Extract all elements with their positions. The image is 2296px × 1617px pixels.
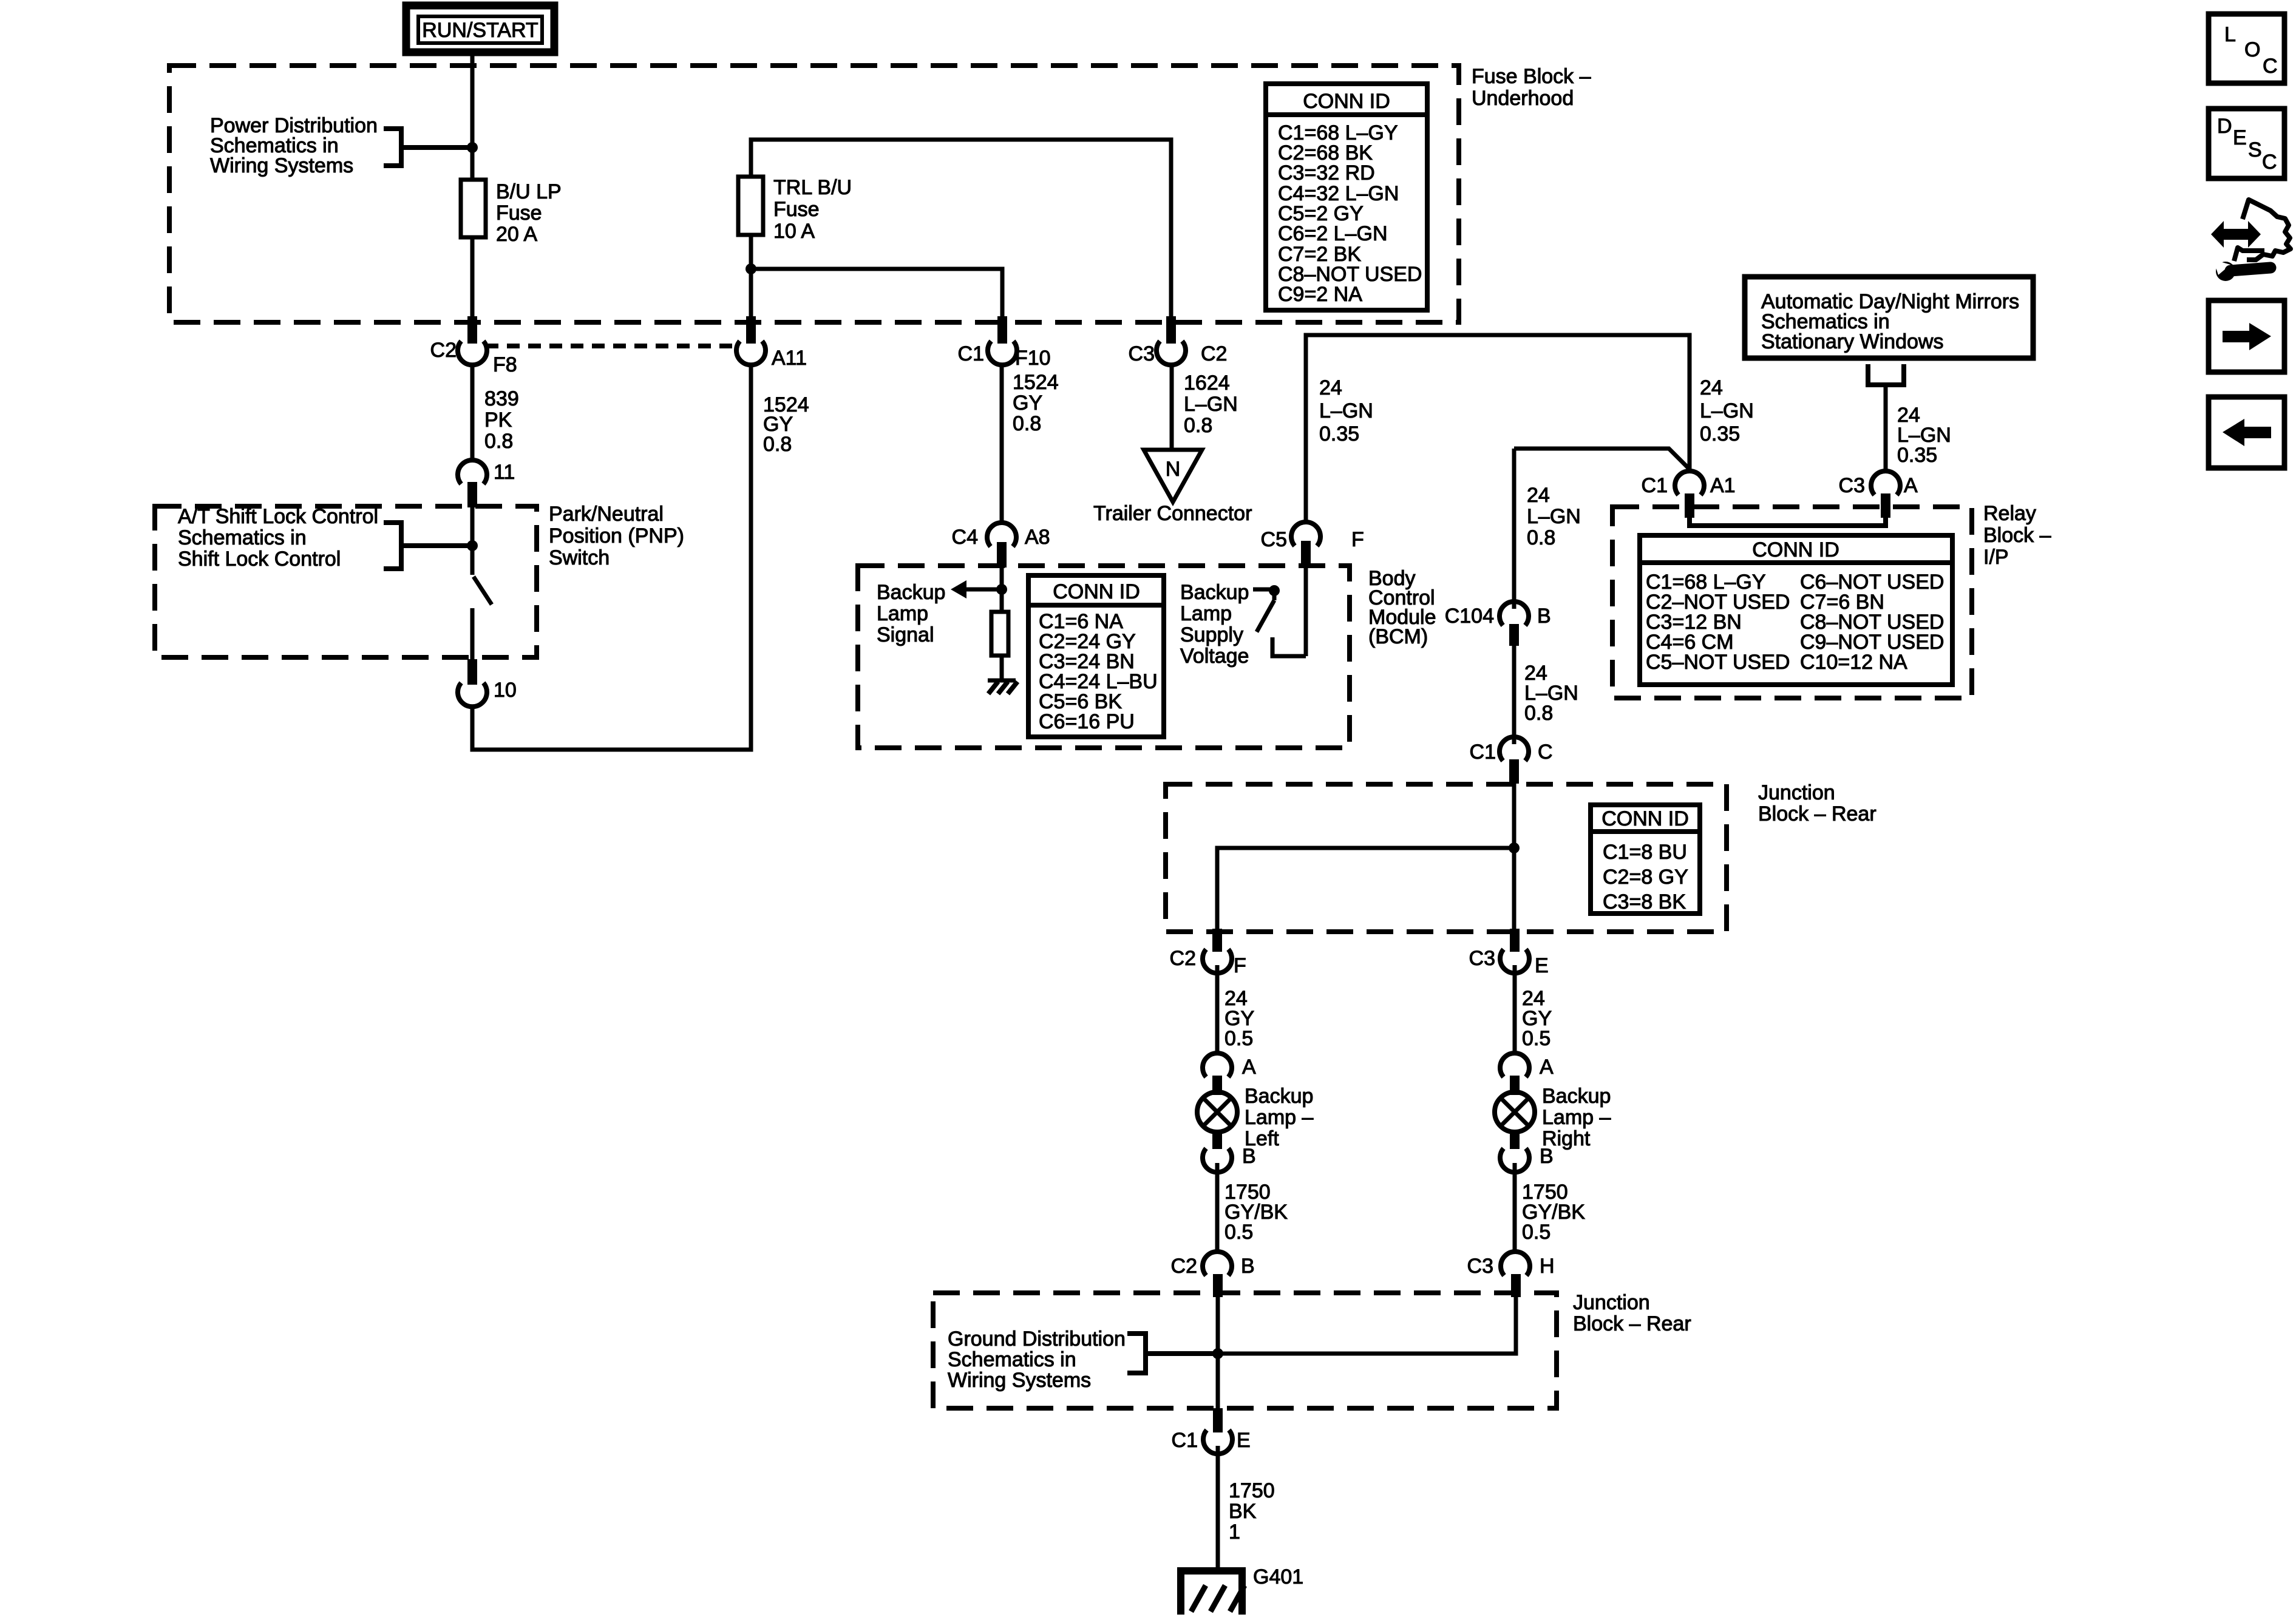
svg-text:C6=16 PU: C6=16 PU bbox=[1039, 710, 1135, 733]
CONN ID table (fuse block underhood) bbox=[1266, 84, 1427, 310]
svg-text:1524: 1524 bbox=[1013, 371, 1059, 394]
wire C3 C2 down to trailer connector bbox=[1170, 365, 1174, 450]
svg-text:F10: F10 bbox=[1015, 347, 1051, 370]
wire TRL fuse feed: top horizontal from TRL fuse to C2 drop bbox=[751, 140, 1171, 319]
svg-text:Underhood: Underhood bbox=[1472, 87, 1574, 110]
backup lamp signal arrow bbox=[951, 580, 1002, 598]
label wire 24 L-GN 0.35 (BCM feed) bbox=[1319, 376, 1373, 446]
label Backup Lamp Supply Voltage bbox=[1180, 581, 1249, 668]
svg-text:Voltage: Voltage bbox=[1180, 645, 1249, 668]
connector C5 F (BCM) bbox=[1261, 522, 1364, 566]
wire E to right lamp bbox=[1513, 965, 1517, 1054]
svg-text:B: B bbox=[1540, 1145, 1554, 1168]
svg-text:0.35: 0.35 bbox=[1700, 422, 1740, 446]
svg-text:Trailer Connector: Trailer Connector bbox=[1093, 502, 1252, 525]
BCM supply switch bbox=[1253, 551, 1306, 656]
label Backup Lamp - Left bbox=[1245, 1085, 1313, 1150]
connector pin 11 (PNP switch) bbox=[458, 460, 515, 507]
connector A (left lamp) bbox=[1203, 1053, 1256, 1095]
connector A (right lamp) bbox=[1500, 1053, 1554, 1095]
node junction dot BCM signal bbox=[996, 584, 1007, 595]
fuse TRL B/U 10A bbox=[738, 177, 763, 235]
ground G401 bbox=[1177, 1565, 1303, 1615]
svg-text:G401: G401 bbox=[1253, 1565, 1303, 1588]
svg-text:Switch: Switch bbox=[549, 546, 610, 569]
bracket to Power Distribution bbox=[384, 129, 469, 166]
trailer connector N triangle bbox=[1144, 450, 1202, 502]
svg-text:0.8: 0.8 bbox=[1524, 702, 1553, 725]
wire C5 F up over to relay A1 bbox=[1306, 335, 1690, 522]
label Junction Block - Rear (upper) bbox=[1758, 781, 1877, 825]
svg-text:C5: C5 bbox=[1261, 528, 1287, 551]
backup lamp left bbox=[1197, 1092, 1237, 1132]
wire F8 to PNP pin 11 bbox=[470, 365, 475, 462]
CONN ID table (relay block) bbox=[1640, 535, 1952, 685]
label wire 1524 GY 0.8 (F10) bbox=[1013, 371, 1059, 435]
svg-text:Lamp: Lamp bbox=[877, 602, 928, 625]
svg-text:C3: C3 bbox=[1129, 342, 1155, 365]
svg-text:24: 24 bbox=[1319, 376, 1342, 399]
wire TRL fuse bottom to A11 bbox=[749, 235, 753, 319]
svg-text:Lamp –: Lamp – bbox=[1542, 1106, 1611, 1129]
svg-text:Block –: Block – bbox=[1983, 524, 2051, 547]
svg-text:Fuse Block –: Fuse Block – bbox=[1472, 65, 1591, 88]
resistor in BCM bbox=[991, 612, 1008, 656]
svg-text:B: B bbox=[1241, 1255, 1255, 1278]
Junction Block - Rear dashed box (upper) bbox=[1166, 784, 1727, 932]
wire C1 E to ground G401 bbox=[1216, 1446, 1220, 1571]
svg-text:Ground Distribution: Ground Distribution bbox=[948, 1327, 1126, 1351]
svg-text:CONN ID: CONN ID bbox=[1053, 580, 1140, 603]
svg-text:C3: C3 bbox=[1469, 947, 1495, 970]
svg-text:I/P: I/P bbox=[1983, 546, 2009, 569]
wire mirrors to C3 A bbox=[1884, 385, 1888, 471]
label wire 24 GY 0.5 (right) bbox=[1522, 987, 1552, 1050]
CONN ID table (BCM) bbox=[1028, 575, 1164, 737]
svg-text:0.35: 0.35 bbox=[1897, 444, 1937, 467]
svg-text:A: A bbox=[1242, 1056, 1256, 1079]
svg-text:Backup: Backup bbox=[1180, 581, 1249, 604]
svg-text:10: 10 bbox=[494, 679, 517, 702]
backup lamp right bbox=[1495, 1092, 1535, 1132]
label wire 1624 L-GN 0.8 bbox=[1184, 371, 1238, 437]
svg-text:A11: A11 bbox=[772, 347, 807, 370]
svg-text:C2=8 GY: C2=8 GY bbox=[1603, 866, 1688, 889]
connector C3 C2 (to trailer) bbox=[1129, 316, 1228, 365]
svg-text:C5–NOT USED: C5–NOT USED bbox=[1646, 651, 1790, 674]
Body Control Module dashed box bbox=[858, 566, 1350, 748]
label TRL B/U Fuse 10 A bbox=[773, 176, 852, 243]
wire branch to F10 bbox=[751, 269, 1002, 319]
bracket to A/T Shift Lock Control bbox=[384, 523, 469, 569]
wire ground junction right internal bbox=[1218, 1297, 1516, 1354]
svg-text:C1: C1 bbox=[958, 342, 984, 365]
svg-text:Wiring Systems: Wiring Systems bbox=[948, 1369, 1091, 1392]
svg-text:B: B bbox=[1537, 605, 1551, 628]
label Body Control Module (BCM) bbox=[1368, 567, 1436, 648]
svg-text:E: E bbox=[1237, 1429, 1251, 1452]
svg-text:Block – Rear: Block – Rear bbox=[1758, 802, 1877, 825]
label wire 24 GY 0.5 (left) bbox=[1224, 987, 1254, 1050]
svg-text:B/U LP: B/U LP bbox=[496, 180, 562, 203]
DESC navigation box bbox=[2209, 109, 2284, 178]
label wire 24 L-GN 0.8 (A1 to C104) bbox=[1527, 484, 1581, 549]
label wire 1750 BK 1 bbox=[1229, 1479, 1275, 1544]
svg-text:C3=32 RD: C3=32 RD bbox=[1278, 161, 1375, 185]
left arrow navigation box bbox=[2209, 397, 2284, 468]
svg-text:Stationary Windows: Stationary Windows bbox=[1761, 330, 1943, 353]
wire left lamp down to C2 B bbox=[1215, 1163, 1220, 1253]
svg-text:1750: 1750 bbox=[1229, 1479, 1275, 1502]
svg-text:Backup: Backup bbox=[877, 581, 945, 604]
svg-text:GY: GY bbox=[1013, 392, 1042, 415]
svg-text:F8: F8 bbox=[493, 353, 517, 376]
connector pin 10 (PNP switch) bbox=[458, 659, 517, 707]
label Fuse Block - Underhood bbox=[1472, 65, 1591, 110]
svg-text:C2: C2 bbox=[1201, 342, 1227, 365]
svg-text:0.35: 0.35 bbox=[1319, 422, 1359, 446]
CONN ID table (junction block) bbox=[1591, 805, 1700, 914]
svg-text:0.5: 0.5 bbox=[1224, 1027, 1253, 1050]
wire pin 10 down and right up to A11 bbox=[472, 365, 751, 750]
svg-text:Lamp –: Lamp – bbox=[1245, 1106, 1313, 1129]
node junction dot below TRL fuse bbox=[746, 263, 756, 274]
connector B (left lamp) bbox=[1203, 1130, 1256, 1172]
svg-text:A/T Shift Lock Control: A/T Shift Lock Control bbox=[178, 505, 378, 528]
fork symbol below mirrors box bbox=[1866, 364, 1906, 385]
wire A1 branch down to C104 bbox=[1512, 449, 1517, 609]
svg-text:Schematics in: Schematics in bbox=[178, 526, 307, 549]
svg-text:C3: C3 bbox=[1467, 1255, 1493, 1278]
connector C104 B bbox=[1445, 602, 1551, 646]
svg-text:L–GN: L–GN bbox=[1700, 399, 1754, 422]
node junction dot on RUN/START wire bbox=[467, 142, 478, 153]
wire right lamp down to C3 H bbox=[1513, 1163, 1517, 1253]
node junction dot ground bbox=[1212, 1348, 1223, 1359]
label wire 839 PK 0.8 bbox=[484, 387, 519, 453]
svg-text:C2: C2 bbox=[1171, 1255, 1197, 1278]
label wire 24 L-GN 0.35 (mirrors) bbox=[1897, 404, 1951, 467]
connector C2 F (junction block bottom left) bbox=[1170, 929, 1246, 977]
svg-text:20 A: 20 A bbox=[496, 223, 537, 246]
svg-text:0.8: 0.8 bbox=[1527, 526, 1555, 549]
ground (BCM internal) bbox=[988, 680, 1017, 694]
wire relay internal A1 to A bbox=[1690, 516, 1886, 526]
right arrow navigation box bbox=[2209, 300, 2284, 372]
label Backup Lamp - Right bbox=[1542, 1085, 1611, 1150]
svg-text:Schematics in: Schematics in bbox=[948, 1348, 1076, 1371]
RUN/START power source box bbox=[406, 5, 554, 52]
wire F10 down to BCM C4 A8 bbox=[1000, 365, 1004, 523]
svg-text:F: F bbox=[1351, 528, 1364, 551]
connector C2 F8 (fuse block to PNP harness) bbox=[430, 316, 517, 376]
svg-text:Backup: Backup bbox=[1542, 1085, 1611, 1108]
label Junction Block - Rear (lower) bbox=[1573, 1291, 1691, 1335]
svg-text:RUN/START: RUN/START bbox=[422, 19, 538, 42]
svg-text:Supply: Supply bbox=[1180, 623, 1243, 646]
svg-text:Shift Lock Control: Shift Lock Control bbox=[178, 547, 341, 571]
Automatic Day/Night Mirrors box bbox=[1745, 277, 2033, 358]
wire junction internal branch to F bbox=[1217, 848, 1514, 930]
label wire 1750 GY/BK 0.5 (right) bbox=[1522, 1181, 1585, 1244]
connector C2 B (ground junction left) bbox=[1171, 1252, 1255, 1297]
svg-text:A1: A1 bbox=[1710, 474, 1736, 497]
connector A11 bbox=[736, 316, 807, 370]
dotted line along connector row C2-A11 bbox=[486, 344, 736, 348]
svg-text:B: B bbox=[1242, 1145, 1256, 1168]
svg-text:10 A: 10 A bbox=[773, 220, 815, 243]
svg-text:C3=8 BK: C3=8 BK bbox=[1603, 890, 1686, 914]
svg-text:Signal: Signal bbox=[877, 623, 934, 646]
svg-text:N: N bbox=[1166, 458, 1181, 481]
fuse B/U LP 20A bbox=[461, 180, 486, 237]
diagnostic icon (double arrow, outline, wrench) bbox=[2211, 200, 2291, 281]
connector C1 E (to G401) bbox=[1172, 1408, 1251, 1454]
connector C3 H (ground junction right) bbox=[1467, 1252, 1555, 1297]
node junction dot PNP bbox=[467, 540, 478, 551]
svg-text:0.5: 0.5 bbox=[1522, 1221, 1550, 1244]
connector C1 F10 bbox=[958, 316, 1051, 370]
wire ground junction left internal bbox=[1216, 1297, 1220, 1408]
connector B (right lamp) bbox=[1500, 1130, 1554, 1172]
svg-text:0.8: 0.8 bbox=[1184, 414, 1212, 437]
svg-text:Junction: Junction bbox=[1758, 781, 1835, 804]
svg-text:Block – Rear: Block – Rear bbox=[1573, 1312, 1691, 1335]
svg-text:Fuse: Fuse bbox=[496, 202, 542, 225]
svg-text:E: E bbox=[1535, 954, 1549, 977]
svg-text:C: C bbox=[2262, 151, 2277, 174]
svg-text:0.8: 0.8 bbox=[763, 433, 792, 456]
svg-text:TRL B/U: TRL B/U bbox=[773, 176, 852, 199]
svg-text:A: A bbox=[1904, 474, 1918, 497]
wire PNP lower contact bbox=[470, 608, 475, 659]
connector C4 A8 (BCM) bbox=[952, 523, 1050, 568]
label wire 24 L-GN 0.35 (relay A1 feed) bbox=[1700, 376, 1754, 446]
svg-text:L: L bbox=[2224, 23, 2236, 46]
label A/T Shift Lock Control Schematics in Shift Lock Control bbox=[178, 505, 378, 571]
svg-text:C6=2 L–GN: C6=2 L–GN bbox=[1278, 222, 1388, 245]
svg-text:F: F bbox=[1234, 954, 1246, 977]
svg-text:L–GN: L–GN bbox=[1319, 399, 1373, 422]
svg-text:C1=8 BU: C1=8 BU bbox=[1603, 841, 1687, 864]
wire resistor to ground bbox=[1000, 656, 1004, 680]
svg-text:Position (PNP): Position (PNP) bbox=[549, 524, 684, 547]
node junction dot (junction block) bbox=[1509, 842, 1520, 853]
LOC navigation box bbox=[2209, 14, 2284, 83]
svg-text:Wiring Systems: Wiring Systems bbox=[210, 154, 353, 177]
wire F to left lamp bbox=[1215, 965, 1220, 1054]
svg-text:PK: PK bbox=[484, 408, 512, 432]
svg-text:1624: 1624 bbox=[1184, 371, 1230, 395]
svg-text:S: S bbox=[2248, 138, 2262, 161]
svg-text:A: A bbox=[1540, 1056, 1554, 1079]
svg-text:C1: C1 bbox=[1172, 1429, 1198, 1452]
wire BCM A8 internal bbox=[1000, 568, 1004, 612]
svg-text:C: C bbox=[1538, 741, 1553, 764]
wire RUN/START to fuse F8 bbox=[470, 52, 475, 319]
svg-text:C2: C2 bbox=[1170, 947, 1196, 970]
svg-text:D: D bbox=[2217, 115, 2232, 138]
svg-text:L–GN: L–GN bbox=[1184, 393, 1238, 416]
Fuse Block - Underhood dashed box bbox=[169, 66, 1459, 322]
label wire 24 L-GN 0.8 (C104 to junction) bbox=[1524, 662, 1578, 725]
svg-text:24: 24 bbox=[1700, 376, 1723, 399]
svg-text:Relay: Relay bbox=[1983, 502, 2036, 525]
svg-text:L–GN: L–GN bbox=[1527, 505, 1581, 528]
Junction Block - Rear dashed box (lower) bbox=[933, 1293, 1557, 1408]
wire junction internal C down to E bbox=[1512, 783, 1517, 930]
svg-text:C104: C104 bbox=[1445, 605, 1494, 628]
svg-text:H: H bbox=[1540, 1255, 1555, 1278]
label wire 1750 GY/BK 0.5 (left) bbox=[1224, 1181, 1288, 1244]
svg-text:839: 839 bbox=[484, 387, 519, 410]
svg-text:C: C bbox=[2263, 55, 2278, 78]
svg-text:O: O bbox=[2244, 38, 2260, 61]
label Backup Lamp Signal bbox=[877, 581, 945, 646]
wire PNP upper contact bbox=[470, 507, 475, 575]
svg-text:CONN ID: CONN ID bbox=[1303, 90, 1390, 113]
A/T Shift Lock Control dashed box bbox=[155, 506, 537, 657]
label B/U LP Fuse 20 A bbox=[496, 180, 562, 246]
svg-text:0.8: 0.8 bbox=[1013, 412, 1041, 435]
svg-text:Backup: Backup bbox=[1245, 1085, 1313, 1108]
svg-text:C4: C4 bbox=[952, 526, 978, 549]
bracket to Ground Distribution bbox=[1127, 1334, 1214, 1373]
svg-text:C9=2 NA: C9=2 NA bbox=[1278, 283, 1362, 306]
svg-text:C10=12 NA: C10=12 NA bbox=[1800, 651, 1907, 674]
connector C1 C (junction block rear) bbox=[1470, 737, 1553, 784]
svg-text:(BCM): (BCM) bbox=[1368, 625, 1428, 648]
svg-text:C1: C1 bbox=[1470, 741, 1496, 764]
svg-text:0.8: 0.8 bbox=[484, 430, 513, 453]
wire C104 to relay A1 (diagonal joint) bbox=[1514, 449, 1690, 469]
svg-text:CONN ID: CONN ID bbox=[1752, 538, 1839, 561]
svg-text:CONN ID: CONN ID bbox=[1601, 807, 1689, 830]
svg-text:C2: C2 bbox=[430, 339, 457, 362]
svg-text:Junction: Junction bbox=[1573, 1291, 1650, 1314]
svg-text:C3: C3 bbox=[1839, 474, 1865, 497]
label wire 1524 GY 0.8 (A11) bbox=[763, 393, 809, 456]
connector C1 A1 (relay block) bbox=[1642, 471, 1736, 518]
svg-text:11: 11 bbox=[494, 461, 515, 484]
svg-text:0.5: 0.5 bbox=[1522, 1027, 1550, 1050]
svg-text:Park/Neutral: Park/Neutral bbox=[549, 503, 664, 526]
svg-text:C1: C1 bbox=[1642, 474, 1668, 497]
svg-text:E: E bbox=[2233, 126, 2247, 149]
svg-text:BK: BK bbox=[1229, 1500, 1257, 1523]
svg-text:Lamp: Lamp bbox=[1180, 602, 1232, 625]
label Ground Distribution Schematics in Wiring Systems bbox=[948, 1327, 1126, 1392]
svg-text:Fuse: Fuse bbox=[773, 198, 820, 221]
svg-text:24: 24 bbox=[1527, 484, 1550, 507]
svg-text:1: 1 bbox=[1229, 1520, 1240, 1544]
connector C3 E (junction block bottom right) bbox=[1469, 929, 1549, 977]
svg-text:A8: A8 bbox=[1025, 526, 1050, 549]
svg-text:0.5: 0.5 bbox=[1224, 1221, 1253, 1244]
connector C3 A (relay block) bbox=[1839, 471, 1918, 518]
label Park/Neutral Position (PNP) Switch bbox=[549, 503, 684, 569]
Relay Block - I/P dashed box bbox=[1612, 507, 1972, 698]
wire C104 to junction block C1 C bbox=[1512, 646, 1517, 744]
label Relay Block - I/P bbox=[1983, 502, 2051, 569]
label Power Distribution Schematics in Wiring Systems bbox=[210, 114, 378, 177]
PNP switch blade bbox=[474, 577, 492, 605]
